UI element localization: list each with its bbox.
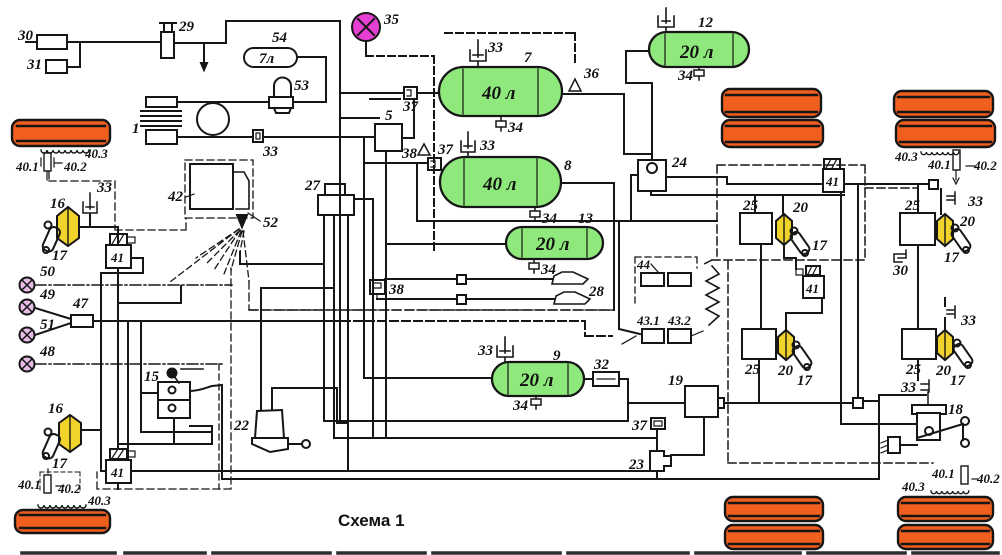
wire to 20tr [940, 189, 942, 214]
wire compressor to 53 to 54 [177, 101, 326, 103]
dashed control line from 35 [366, 56, 434, 253]
wire 16 to 41 [79, 215, 118, 245]
dashed box around 44 [635, 257, 697, 306]
wire lamps 49,51 to 47 [35, 308, 71, 335]
svg-text:40.1: 40.1 [15, 159, 39, 174]
cylinder 17 top-left [41, 222, 67, 265]
svg-text:54: 54 [272, 30, 288, 46]
node square y403 right [853, 398, 863, 408]
drain valve 33 above tank 12 [658, 8, 674, 32]
protection valve 42 [167, 164, 249, 209]
svg-text:40 л: 40 л [482, 174, 517, 195]
bus y438 [334, 437, 657, 439]
valve 27 [304, 178, 354, 215]
check valve 36 [569, 66, 600, 91]
svg-text:53: 53 [294, 78, 310, 94]
gauge 35 [352, 12, 400, 54]
air tank 7 (40l) [439, 50, 562, 116]
wire bundle vertical x141 [141, 321, 210, 432]
air tank 8 (40l) [440, 157, 572, 207]
svg-text:20 л: 20 л [519, 370, 554, 391]
svg-text:28: 28 [588, 284, 605, 300]
svg-text:16: 16 [50, 196, 66, 212]
wire 5 bottom drop [385, 151, 387, 438]
cylinder 17 mid [789, 228, 827, 257]
svg-text:38: 38 [388, 282, 405, 298]
valve 23 [628, 451, 671, 473]
valve 41 upper-right [823, 159, 844, 192]
svg-text:20: 20 [959, 214, 976, 230]
cylinder 17 bottom-left [41, 429, 67, 473]
wire 27 risers down [324, 215, 348, 471]
svg-text:22: 22 [233, 418, 250, 434]
air tank 13 (20l) [506, 211, 603, 259]
svg-text:8: 8 [564, 158, 572, 174]
spring zigzag [706, 266, 719, 325]
svg-text:17: 17 [950, 373, 966, 389]
svg-text:24: 24 [671, 155, 688, 171]
wire 41ur down [841, 192, 917, 424]
svg-text:50: 50 [40, 264, 56, 280]
wire 25br to 18 [917, 359, 919, 380]
lamp 49 [20, 287, 56, 315]
dashed riser x231 [97, 268, 231, 489]
wire tank7 out [562, 94, 652, 154]
spring brake 40.1 40.2 bottom-left [17, 469, 81, 496]
wire 41bl stem [117, 444, 119, 489]
wire tank8 drop to 43 [619, 221, 640, 334]
spring coil right-top wheels [894, 149, 959, 164]
drain valve 33 above tank 7 [470, 40, 504, 67]
wire 47 bus to 43.1 [93, 320, 330, 322]
wire 25mb down [758, 359, 760, 403]
port 33 above 18 [900, 380, 929, 407]
engine circle [197, 103, 229, 135]
valve 33 near compressor [253, 130, 279, 160]
brake chamber 25 mid [740, 198, 772, 244]
svg-text:40.1: 40.1 [17, 477, 41, 492]
svg-text:34: 34 [512, 398, 529, 414]
junction box 44 [636, 257, 691, 286]
svg-text:25: 25 [742, 198, 759, 214]
wire 41lr to 20mb [786, 298, 822, 331]
sensor 43.2 [667, 313, 703, 343]
valve 41 top-left [106, 234, 135, 268]
port 33 right-top [947, 192, 984, 210]
wire 24 left leg [631, 175, 638, 221]
svg-text:33: 33 [96, 180, 113, 196]
svg-text:29: 29 [178, 19, 195, 35]
wire 5 inner loop [364, 137, 428, 221]
wire bus y195 [651, 191, 844, 195]
cylinder 17 top-right [944, 225, 972, 267]
wire into 15 left [141, 392, 158, 394]
svg-text:37: 37 [402, 99, 419, 115]
dashed riser x734 [728, 261, 933, 463]
port 33 above 20br [947, 306, 977, 329]
wire 5-area to tank7 [340, 93, 439, 138]
svg-text:25: 25 [905, 362, 922, 378]
dashed box around 42 [185, 160, 253, 218]
svg-text:33: 33 [900, 380, 917, 396]
svg-text:33: 33 [262, 144, 279, 160]
wire tank13 feed [386, 243, 506, 245]
svg-text:43.2: 43.2 [667, 313, 691, 328]
svg-text:37: 37 [437, 142, 454, 158]
svg-text:41: 41 [825, 174, 839, 189]
dashed line x219 [218, 364, 220, 489]
svg-text:17: 17 [52, 456, 68, 472]
signal line from lamp 48 [35, 363, 222, 365]
svg-text:43.1: 43.1 [636, 313, 660, 328]
valve 41 bottom-left [106, 449, 135, 483]
svg-text:42: 42 [167, 189, 184, 205]
hand brake valve 15 [144, 369, 203, 419]
drain valve 33 left [83, 180, 113, 222]
svg-text:17: 17 [812, 238, 828, 254]
svg-text:35: 35 [383, 12, 400, 28]
wire 22 staircase to bus [272, 388, 348, 423]
cylinder 20 bottom-right [935, 330, 953, 379]
node square right bus [929, 180, 938, 189]
brake chamber 25 bottom-right [902, 329, 936, 378]
wire 41lr tab [784, 245, 796, 269]
lamp 48 [20, 344, 56, 372]
tank 54 (7l) [244, 30, 297, 67]
wire 25mid feeds [755, 195, 783, 214]
wire riser x340 [324, 118, 628, 421]
svg-text:13: 13 [578, 211, 594, 227]
svg-text:41: 41 [805, 281, 819, 296]
svg-text:40.3: 40.3 [894, 149, 918, 164]
svg-text:33: 33 [479, 138, 496, 154]
svg-text:23: 23 [628, 457, 645, 473]
svg-text:1: 1 [132, 121, 140, 137]
spring brake 40.1 40.2 right-bottom [931, 466, 1000, 486]
svg-text:20: 20 [777, 363, 794, 379]
svg-text:18: 18 [948, 402, 964, 418]
air tank 9 (20l) [492, 348, 584, 396]
valve 24 [638, 155, 688, 191]
brake pedal valve 22 [233, 410, 310, 452]
svg-text:34: 34 [541, 211, 558, 227]
svg-text:33: 33 [967, 194, 984, 210]
wire 15 to riser x222 [190, 385, 222, 479]
svg-text:15: 15 [144, 369, 160, 385]
svg-text:33: 33 [477, 343, 494, 359]
svg-text:40.3: 40.3 [84, 146, 108, 161]
svg-text:40.2: 40.2 [63, 159, 87, 174]
svg-text:36: 36 [583, 66, 600, 82]
node on wire 28b [457, 295, 466, 304]
wire tank12 to valve 24 [626, 51, 652, 162]
sensor 38 mid [370, 280, 405, 299]
wire x364 to tank9 [364, 163, 492, 378]
valve 19 [668, 373, 718, 417]
svg-text:37: 37 [631, 418, 648, 434]
wire 41tl right loop [101, 258, 143, 471]
hand lever 18 [912, 402, 969, 447]
valve 29 [160, 19, 195, 58]
svg-text:34: 34 [677, 68, 694, 84]
wheel pair right-bottom [898, 497, 993, 549]
svg-text:5: 5 [385, 108, 393, 124]
compressor 1 [132, 97, 181, 144]
svg-text:40.3: 40.3 [87, 493, 111, 508]
svg-text:7: 7 [524, 50, 532, 66]
valve 41 lower-right [796, 266, 824, 298]
wire fan feed to riser [240, 252, 324, 264]
svg-text:20 л: 20 л [535, 234, 570, 255]
drain valve 34 below tank 12 [677, 67, 704, 84]
svg-text:17: 17 [52, 248, 68, 264]
svg-text:20 л: 20 л [679, 42, 714, 63]
wheel pair right-top [894, 91, 995, 147]
cylinder 20 mid [776, 200, 809, 245]
svg-text:49: 49 [39, 287, 56, 303]
svg-text:40.3: 40.3 [901, 479, 925, 494]
svg-text:27: 27 [304, 178, 321, 194]
component 31 [26, 57, 67, 73]
dashed box around tank 7 [445, 33, 575, 64]
sensor 37 bottom [631, 418, 665, 434]
test port 30 right [892, 250, 909, 279]
cylinder 17 mid-bottom [791, 342, 813, 390]
signal line from lamp 50 [35, 284, 232, 286]
wire riser x339 [340, 21, 379, 118]
bus y221 [417, 220, 717, 222]
dashed riser x249 [249, 281, 614, 310]
air tank 12 (20l) [649, 15, 749, 67]
svg-text:17: 17 [797, 373, 813, 389]
wire 27 right [354, 199, 373, 438]
wire 54 down [297, 57, 326, 102]
svg-text:32: 32 [593, 357, 610, 373]
svg-text:44: 44 [636, 257, 651, 272]
svg-text:33: 33 [960, 313, 977, 329]
svg-text:38: 38 [401, 146, 418, 162]
svg-text:9: 9 [553, 348, 561, 364]
lamp 51 [20, 317, 56, 343]
valve 5 [375, 108, 402, 151]
spring coil under top-left brake [41, 146, 108, 161]
wire 41tl bottom bundle [118, 268, 212, 444]
brake chamber 25 top-right [900, 198, 935, 245]
air horn 28a [552, 272, 588, 284]
wire to horn 28a [385, 278, 552, 280]
wheel pair mid-top [722, 89, 823, 147]
pressure regulator 53 [269, 78, 310, 114]
wire to horn 28b [377, 298, 554, 300]
node on wire 28a [457, 275, 466, 284]
filter 16 top-left [50, 196, 79, 246]
dashed fan rays from 52 [170, 229, 249, 282]
svg-text:40.2: 40.2 [57, 481, 81, 496]
wire 29 to top run [174, 21, 340, 43]
wheel pair mid-bottom [725, 497, 823, 549]
svg-text:30: 30 [892, 263, 909, 279]
cylinder 17 bottom-right [950, 340, 974, 390]
cylinder 20 mid-bottom [777, 330, 794, 379]
lamp 50 [20, 264, 56, 293]
wire 19 bottom to 23 [671, 417, 704, 455]
wire tank9 to 32 to bus [584, 379, 628, 421]
bus y310 dashed [249, 309, 614, 311]
wire 16bl to bundle [81, 429, 101, 431]
svg-text:47: 47 [72, 296, 89, 312]
wire 22 top riser [261, 288, 334, 409]
wire 25tr vertical link [917, 184, 919, 329]
svg-text:7л: 7л [259, 51, 275, 67]
svg-text:Схема 1: Схема 1 [338, 511, 405, 530]
wire 24 to right bus [666, 177, 933, 184]
drain valve 34 below tank 8 [530, 207, 558, 227]
svg-text:17: 17 [944, 250, 960, 266]
chassis mount for 18 [881, 437, 917, 453]
svg-text:33: 33 [487, 40, 504, 56]
wire 20br up [944, 298, 946, 330]
scan artifact dashes bottom edge [22, 551, 998, 555]
valve 37 top [402, 87, 419, 115]
sensor 43.1 [622, 313, 664, 344]
wire 37-23 riser [656, 429, 658, 479]
svg-text:40 л: 40 л [481, 83, 516, 104]
cylinder 20 top-right [937, 214, 976, 246]
svg-text:12: 12 [698, 15, 714, 31]
drain valve 34 below tank 13 [529, 259, 557, 278]
drain valve 33 above tank 9 [477, 337, 513, 362]
node square y403 left [714, 398, 724, 408]
svg-text:31: 31 [26, 57, 42, 73]
svg-text:41: 41 [110, 465, 124, 480]
air horn 28b [554, 284, 605, 304]
front brake top-left [12, 120, 110, 146]
svg-text:48: 48 [39, 344, 56, 360]
dashed control bus y260 [704, 165, 918, 264]
brake chamber 25 mid-bottom [742, 329, 776, 378]
spring brake symbols 40.1 40.2 top-left [15, 153, 87, 180]
wire right bus down [857, 184, 859, 398]
drain valve 34 below tank 7 [496, 116, 524, 136]
svg-text:40.1: 40.1 [927, 157, 951, 172]
bus y403 [628, 402, 853, 404]
bus bottom long [101, 395, 926, 479]
svg-text:40.2: 40.2 [976, 471, 1000, 486]
wire 25mid down [760, 244, 762, 329]
spring coil right-bottom wheels [901, 479, 969, 494]
tank seams [463, 34, 733, 394]
wire tank8 out [561, 183, 614, 310]
svg-text:40.1: 40.1 [931, 466, 955, 481]
svg-text:34: 34 [507, 120, 524, 136]
valve 37 at tank 8 [428, 142, 454, 170]
dashed link 40-area to 42 [49, 172, 186, 230]
svg-text:41: 41 [110, 250, 124, 265]
spring coil bottom-left brake [38, 493, 111, 508]
distribution point 52 [237, 213, 279, 231]
svg-text:52: 52 [263, 215, 279, 231]
drain valve 34 below tank 9 [512, 396, 541, 414]
wire bundle vertical x128 [127, 321, 129, 471]
spring brake 40.1 40.2 right-top [927, 150, 997, 184]
drain valve 33 above tank 8 [461, 132, 496, 157]
wire 30-31 junction [26, 42, 161, 67]
wire stub arrow below 29 [203, 43, 205, 64]
front brake bottom-left [15, 510, 110, 533]
svg-text:19: 19 [668, 373, 684, 389]
connector 47 [71, 296, 93, 327]
svg-text:16: 16 [48, 401, 64, 417]
svg-text:40.2: 40.2 [973, 158, 997, 173]
filter 16 bottom-left [48, 401, 81, 452]
wire compressor-33-5 [177, 136, 375, 138]
svg-text:20: 20 [792, 200, 809, 216]
wire 15 bottom stem [173, 418, 175, 444]
component 30 [17, 28, 67, 49]
pressure reducer 32 [593, 357, 619, 386]
check valve 38 triangle [401, 144, 430, 162]
